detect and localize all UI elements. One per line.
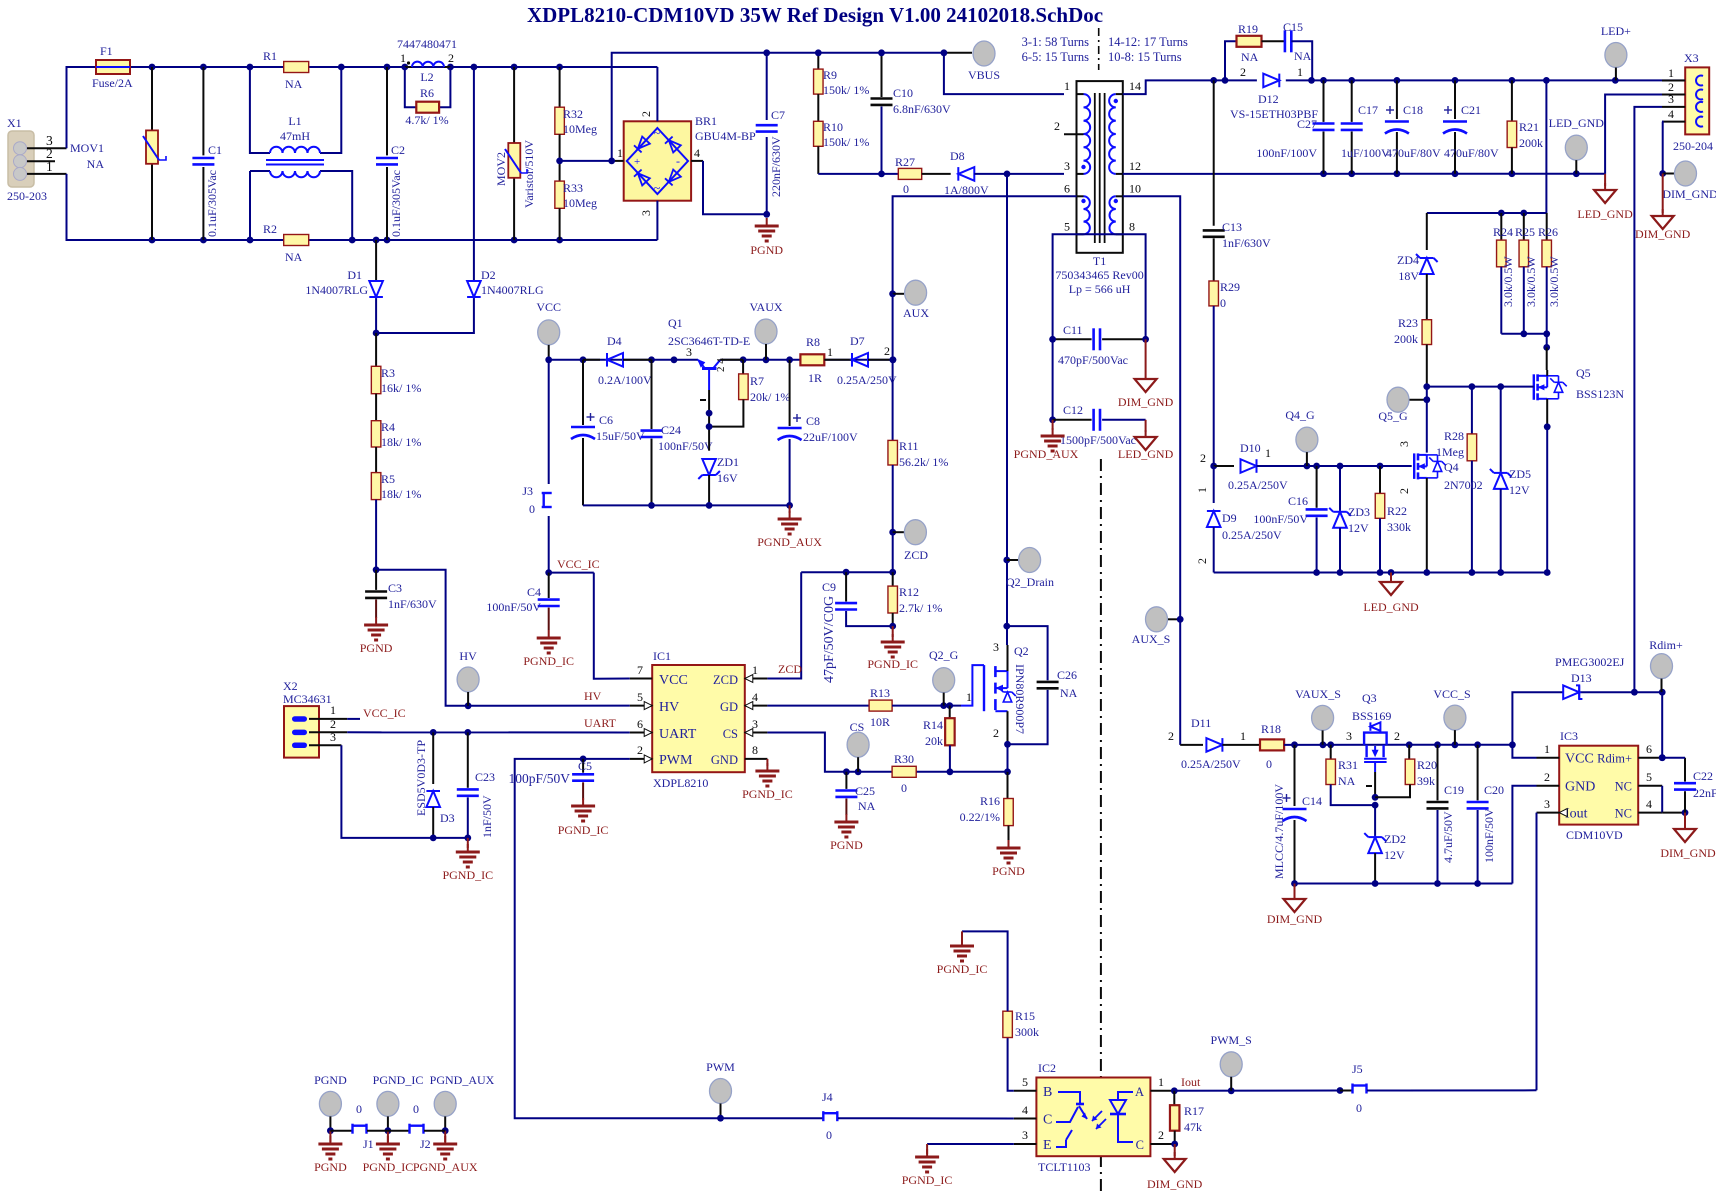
zener ZD3 — [1329, 466, 1370, 573]
ground PGND_IC at R15 — [937, 931, 988, 976]
transistor Q2 IPN80R900P7 — [961, 640, 1029, 772]
svg-text:C4: C4 — [527, 585, 541, 599]
svg-text:2: 2 — [1200, 451, 1206, 465]
svg-text:VCC_IC: VCC_IC — [363, 706, 406, 720]
svg-text:0: 0 — [1356, 1101, 1362, 1115]
svg-text:R29: R29 — [1220, 280, 1240, 294]
port PGND — [314, 1073, 347, 1134]
resistor R17 — [1170, 1091, 1204, 1148]
diode D2 — [373, 67, 544, 336]
resistor R31 — [1326, 745, 1375, 805]
svg-text:14-12: 17 Turns: 14-12: 17 Turns — [1108, 35, 1188, 49]
svg-text:~: ~ — [654, 181, 661, 195]
port LED+ — [1601, 24, 1631, 80]
svg-text:VCC_IC: VCC_IC — [557, 557, 600, 571]
svg-text:6: 6 — [1064, 182, 1070, 196]
svg-text:PGND_IC: PGND_IC — [523, 654, 574, 668]
resistor R3 chain top — [371, 333, 421, 395]
svg-text:470uF/80V: 470uF/80V — [1444, 146, 1499, 160]
wire GD net — [767, 705, 869, 707]
wire IC3 GND — [1512, 786, 1536, 884]
wire R27 rail — [818, 173, 898, 175]
svg-text:0.1uF/305Vac: 0.1uF/305Vac — [205, 170, 219, 237]
wire C13 R29 column — [1213, 80, 1215, 225]
svg-text:R4: R4 — [381, 420, 395, 434]
resistor R22 — [1375, 466, 1411, 573]
svg-text:0.22/1%: 0.22/1% — [960, 810, 1000, 824]
wire T1 pin6 — [893, 196, 1077, 293]
svg-text:Rdim+: Rdim+ — [1597, 752, 1632, 766]
svg-text:D12: D12 — [1258, 92, 1279, 106]
capacitor C21 polar — [1443, 80, 1499, 173]
wire VBUS riser — [612, 53, 944, 161]
svg-text:PGND: PGND — [830, 838, 863, 852]
capacitor C23 — [433, 732, 495, 841]
wire D8 to T1 pin3 — [974, 171, 1064, 178]
svg-text:Iout: Iout — [1181, 1075, 1201, 1089]
wire T1 pin12 rail — [1123, 170, 1605, 177]
svg-text:10Meg: 10Meg — [563, 122, 597, 136]
svg-text:10R: 10R — [870, 715, 890, 729]
svg-text:PGND: PGND — [314, 1073, 347, 1087]
diode D4 — [583, 334, 652, 387]
svg-text:18k/ 1%: 18k/ 1% — [381, 435, 421, 449]
jumper J3 — [522, 360, 551, 573]
svg-text:C10: C10 — [893, 86, 913, 100]
svg-text:PGND: PGND — [750, 243, 783, 257]
diode D11 — [1180, 716, 1260, 771]
resistor R33 — [555, 134, 597, 240]
svg-text:VAUX_S: VAUX_S — [1295, 687, 1341, 701]
ground PGND_IC at IC2 — [902, 1144, 953, 1187]
svg-text:20k: 20k — [925, 734, 943, 748]
ground DIM_GND at X3 — [1635, 174, 1691, 242]
ground PGND at C3 — [360, 617, 393, 655]
capacitor C12 — [1049, 339, 1145, 447]
svg-text:J4: J4 — [822, 1090, 833, 1104]
wire IC3 pin5-4 — [1662, 786, 1688, 816]
wire AC line top — [67, 67, 97, 148]
svg-text:NA: NA — [858, 799, 876, 813]
wire top rail — [130, 64, 657, 71]
wire X3 pin3 — [1634, 107, 1662, 692]
transistor Q1 — [668, 316, 750, 400]
svg-text:R24: R24 — [1493, 225, 1513, 239]
wire PGND_AUX rail — [583, 502, 793, 509]
svg-text:1: 1 — [1240, 729, 1246, 743]
wire Q1 base down — [706, 390, 713, 451]
svg-text:LED_GND: LED_GND — [1549, 116, 1605, 130]
svg-text:X2: X2 — [283, 679, 298, 693]
svg-text:6-5: 15 Turns: 6-5: 15 Turns — [1022, 50, 1090, 64]
svg-text:56.2k/ 1%: 56.2k/ 1% — [899, 455, 948, 469]
svg-text:5: 5 — [1064, 220, 1070, 234]
resistor R26 — [1538, 213, 1561, 337]
ground PGND_AUX — [757, 505, 822, 549]
wire Q5 gate rail — [1423, 383, 1533, 390]
svg-text:2: 2 — [1544, 770, 1550, 784]
svg-text:R20: R20 — [1417, 758, 1437, 772]
svg-text:J2: J2 — [420, 1137, 431, 1151]
wire AC neutral bottom — [67, 174, 284, 240]
wire ZCD to IC1 — [767, 572, 802, 678]
wire Iout line — [1171, 1075, 1344, 1094]
svg-text:16k/ 1%: 16k/ 1% — [381, 381, 421, 395]
zener ZD5 — [1490, 387, 1531, 573]
resistor R11 — [888, 439, 948, 572]
capacitor C19 — [1427, 745, 1465, 884]
wire IC3 VCC — [1512, 745, 1536, 758]
ground LED_GND at rail2 — [1363, 573, 1419, 615]
svg-text:100pF/50V: 100pF/50V — [508, 771, 570, 786]
svg-text:2: 2 — [637, 743, 643, 757]
svg-text:1uF/100V: 1uF/100V — [1341, 146, 1390, 160]
wire bottom rail — [309, 239, 658, 241]
svg-text:1Meg: 1Meg — [1436, 445, 1464, 459]
svg-text:D3: D3 — [440, 811, 455, 825]
svg-text:J1: J1 — [363, 1137, 374, 1151]
capacitor C6 polar — [571, 360, 645, 506]
svg-text:C15: C15 — [1283, 20, 1303, 34]
svg-text:47k: 47k — [1184, 1120, 1202, 1134]
svg-text:1A/800V: 1A/800V — [944, 183, 989, 197]
wire BR1 pin3 — [656, 201, 658, 240]
svg-text:1nF/50V: 1nF/50V — [480, 795, 494, 838]
svg-text:IC1: IC1 — [653, 649, 671, 663]
capacitor C22 — [1659, 754, 1716, 812]
port Q2_Drain — [1006, 548, 1054, 590]
varistor MOV1 — [70, 67, 166, 240]
svg-text:Q4_G: Q4_G — [1285, 408, 1315, 422]
svg-text:3: 3 — [1346, 729, 1352, 743]
resistor R24 — [1493, 213, 1515, 334]
svg-text:2: 2 — [639, 111, 653, 117]
capacitor C20 — [1467, 745, 1504, 884]
svg-text:PGND_IC: PGND_IC — [867, 657, 918, 671]
svg-text:3: 3 — [993, 640, 999, 654]
svg-text:NA: NA — [285, 77, 303, 91]
svg-text:R22: R22 — [1387, 504, 1407, 518]
svg-text:MOV2: MOV2 — [494, 152, 508, 186]
svg-text:PGND_IC: PGND_IC — [902, 1173, 953, 1187]
IC IC3 CDM10VD — [1537, 729, 1663, 842]
svg-text:IC3: IC3 — [1560, 729, 1578, 743]
svg-text:CS: CS — [850, 720, 865, 734]
svg-text:HV: HV — [659, 700, 679, 715]
svg-text:F1: F1 — [100, 44, 113, 58]
svg-text:PGND_IC: PGND_IC — [742, 787, 793, 801]
connector X2 — [283, 679, 347, 758]
svg-text:330k: 330k — [1387, 520, 1411, 534]
svg-text:1: 1 — [46, 159, 53, 174]
svg-text:DIM_GND: DIM_GND — [1662, 187, 1716, 201]
wire LED_GND rail — [1214, 569, 1551, 576]
svg-text:20k/ 1%: 20k/ 1% — [750, 390, 790, 404]
port PWM_S — [1211, 1033, 1252, 1091]
svg-text:ZCD: ZCD — [778, 662, 802, 676]
capacitor C4 — [486, 573, 559, 630]
svg-text:C17: C17 — [1358, 103, 1378, 117]
svg-text:PGND_AUX: PGND_AUX — [430, 1073, 495, 1087]
ground LED_GND at C12 — [1118, 420, 1174, 461]
svg-text:4: 4 — [694, 146, 700, 160]
svg-text:C27: C27 — [1297, 117, 1317, 131]
svg-text:R18: R18 — [1261, 722, 1281, 736]
svg-text:MC34631: MC34631 — [283, 692, 332, 706]
svg-text:3: 3 — [1668, 92, 1674, 106]
resistor R13 — [869, 686, 892, 729]
jumper J2 — [388, 1102, 445, 1151]
resistor R23 — [1394, 316, 1432, 387]
svg-text:3: 3 — [1544, 797, 1550, 811]
svg-text:3.0k/0.5W: 3.0k/0.5W — [1524, 256, 1538, 307]
wire GD to gate — [892, 690, 972, 709]
svg-text:LED_GND: LED_GND — [1118, 447, 1174, 461]
svg-text:LED_GND: LED_GND — [1363, 600, 1419, 614]
diode D12 — [1230, 65, 1318, 121]
junctions bottom rail — [149, 237, 563, 244]
svg-text:ZCD: ZCD — [904, 548, 928, 562]
resistor R4 — [371, 394, 421, 449]
svg-text:3: 3 — [330, 730, 336, 744]
svg-text:C6: C6 — [599, 413, 613, 427]
svg-text:C18: C18 — [1403, 103, 1423, 117]
svg-text:BSS123N: BSS123N — [1576, 387, 1624, 401]
svg-text:IPN80R900P7: IPN80R900P7 — [1013, 664, 1027, 734]
resistor R2 — [263, 222, 309, 264]
svg-text:C21: C21 — [1461, 103, 1481, 117]
svg-text:0: 0 — [901, 781, 907, 795]
resistor R1 — [263, 49, 309, 91]
capacitor C17 — [1341, 80, 1390, 173]
svg-text:NC: NC — [1615, 780, 1632, 794]
svg-text:1: 1 — [966, 690, 972, 704]
svg-text:L2: L2 — [420, 70, 433, 84]
svg-text:3: 3 — [1064, 159, 1070, 173]
svg-text:7: 7 — [637, 663, 643, 677]
ground PGND at C25 — [830, 814, 863, 852]
connector X1 — [7, 116, 67, 203]
wire HV net — [376, 570, 630, 709]
resistor R6 — [405, 67, 451, 127]
resistor R27 — [895, 155, 922, 196]
svg-text:MLCC/4.7uF/100V: MLCC/4.7uF/100V — [1272, 784, 1286, 879]
port Q5_G — [1378, 387, 1430, 453]
svg-text:~: ~ — [654, 126, 661, 140]
svg-text:AUX: AUX — [903, 306, 929, 320]
wire UART net — [347, 716, 630, 736]
svg-text:1nF/630V: 1nF/630V — [1222, 236, 1271, 250]
svg-text:IC2: IC2 — [1038, 1061, 1056, 1075]
svg-text:1R: 1R — [808, 371, 822, 385]
svg-text:ZD1: ZD1 — [717, 455, 739, 469]
svg-text:C24: C24 — [661, 423, 681, 437]
capacitor C16 — [1253, 466, 1327, 573]
ground PGND_AUX bottom — [413, 1131, 478, 1174]
svg-text:PWM: PWM — [706, 1060, 735, 1074]
wire ZD4 rail — [1427, 80, 1547, 216]
wire CS net — [767, 733, 1010, 776]
capacitor C3 — [365, 570, 437, 618]
resistor R30 — [892, 752, 916, 795]
svg-text:BR1: BR1 — [695, 114, 717, 128]
svg-text:R23: R23 — [1398, 316, 1418, 330]
ground PGND_IC at IC1 pin8 — [742, 759, 793, 801]
wire secondary rail — [1210, 77, 1685, 84]
svg-text:R1: R1 — [263, 49, 277, 63]
ground DIM_GND at C11 — [1118, 339, 1174, 409]
jumper J1 — [330, 1102, 388, 1151]
svg-text:PGND_AUX: PGND_AUX — [413, 1160, 478, 1174]
port LED_GND — [1549, 116, 1605, 174]
svg-text:1: 1 — [617, 146, 623, 160]
svg-text:R19: R19 — [1238, 22, 1258, 36]
capacitor C8 polar — [778, 360, 858, 506]
wire X2 pin1 VCC_IC — [347, 706, 405, 720]
svg-text:22uF/100V: 22uF/100V — [803, 430, 858, 444]
svg-text:D4: D4 — [607, 334, 622, 348]
svg-text:E: E — [1043, 1138, 1052, 1153]
svg-text:0: 0 — [1220, 296, 1226, 310]
svg-text:GBU4M-BP: GBU4M-BP — [695, 129, 756, 143]
transistor Q4 2N7002 — [1397, 441, 1483, 573]
svg-text:5: 5 — [1022, 1075, 1028, 1089]
svg-text:12V: 12V — [1348, 521, 1369, 535]
svg-text:Lp = 566 uH: Lp = 566 uH — [1069, 282, 1131, 296]
svg-text:NC: NC — [1615, 807, 1632, 821]
svg-text:100nF/50V: 100nF/50V — [486, 600, 541, 614]
svg-text:1: 1 — [1195, 487, 1209, 493]
svg-text:R8: R8 — [806, 335, 820, 349]
svg-text:VCC: VCC — [659, 673, 688, 688]
choke L1 — [250, 67, 352, 240]
svg-text:+: + — [634, 156, 640, 168]
transformer T1 — [1054, 79, 1144, 296]
IC IC2 TCLT1103 — [1014, 1061, 1175, 1174]
svg-text:2N7002: 2N7002 — [1444, 478, 1483, 492]
svg-text:Q2: Q2 — [1014, 644, 1029, 658]
svg-text:D7: D7 — [850, 334, 865, 348]
wire VCC_IC net — [545, 557, 629, 679]
capacitor C27 — [1256, 80, 1334, 173]
resistor R29 — [1209, 280, 1240, 466]
svg-text:R33: R33 — [563, 181, 583, 195]
wire T1 pin14 to rail — [1123, 80, 1214, 94]
svg-text:BSS169: BSS169 — [1352, 709, 1391, 723]
resistor R19 — [1225, 22, 1262, 80]
svg-text:C3: C3 — [388, 581, 402, 595]
wire DIM_GND rail — [1291, 880, 1512, 887]
svg-text:2: 2 — [1054, 119, 1060, 133]
svg-text:CDM10VD: CDM10VD — [1566, 828, 1623, 842]
port VCC — [536, 300, 561, 363]
svg-text:D2: D2 — [481, 268, 496, 282]
svg-text:PGND_IC: PGND_IC — [373, 1073, 424, 1087]
diode D1 — [305, 240, 383, 333]
svg-text:C2: C2 — [391, 143, 405, 157]
svg-text:250-204: 250-204 — [1673, 139, 1713, 153]
svg-text:47mH: 47mH — [280, 129, 310, 143]
svg-text:D13: D13 — [1571, 671, 1592, 685]
wire X2 pin3 — [341, 745, 433, 838]
svg-text:VCC: VCC — [1565, 752, 1594, 767]
svg-text:3-1: 58 Turns: 3-1: 58 Turns — [1022, 35, 1090, 49]
svg-text:470pF/500Vac: 470pF/500Vac — [1058, 353, 1128, 367]
wire D13 line — [1512, 689, 1665, 745]
port Q2_G — [929, 648, 959, 706]
svg-text:R28: R28 — [1444, 429, 1464, 443]
svg-text:Q2_G: Q2_G — [929, 648, 959, 662]
svg-text:R5: R5 — [381, 472, 395, 486]
resistor R7 — [709, 360, 790, 427]
wire D9 column — [1195, 466, 1214, 503]
fuse F1 — [92, 44, 133, 90]
wire IC2 pin3 E — [927, 1143, 1014, 1145]
svg-text:C1: C1 — [208, 143, 222, 157]
capacitor C25 — [835, 772, 875, 815]
svg-text:Q1: Q1 — [668, 316, 683, 330]
svg-text:PGND: PGND — [992, 864, 1025, 878]
capacitor C2 — [376, 67, 405, 240]
svg-text:Q4: Q4 — [1444, 460, 1459, 474]
svg-text:R6: R6 — [420, 86, 434, 100]
svg-text:PMEG3002EJ: PMEG3002EJ — [1555, 655, 1625, 669]
port VAUX_S — [1295, 687, 1341, 745]
svg-text:Q5: Q5 — [1576, 366, 1591, 380]
svg-text:XDPL8210: XDPL8210 — [653, 776, 708, 790]
svg-text:3: 3 — [639, 210, 653, 216]
svg-text:2: 2 — [1168, 729, 1174, 743]
svg-text:C20: C20 — [1484, 783, 1504, 797]
wire ZCD node — [801, 569, 896, 576]
svg-text:DIM_GND: DIM_GND — [1660, 846, 1716, 860]
svg-text:LED_GND: LED_GND — [1577, 207, 1633, 221]
svg-text:A: A — [1135, 1085, 1144, 1099]
wire Q2 drain net — [1003, 174, 1010, 645]
svg-text:R10: R10 — [823, 120, 843, 134]
svg-text:12V: 12V — [1509, 483, 1530, 497]
svg-text:2: 2 — [1394, 729, 1400, 743]
capacitor C7 — [756, 49, 785, 217]
svg-text:470uF/80V: 470uF/80V — [1386, 146, 1441, 160]
jumper J5 — [1340, 1062, 1537, 1115]
svg-text:VBUS: VBUS — [968, 68, 1000, 82]
ground PGND_IC at C5 — [558, 798, 609, 837]
wire R24-26 join — [1501, 334, 1550, 370]
svg-text:0.25A/250V: 0.25A/250V — [1181, 757, 1241, 771]
svg-text:R9: R9 — [823, 68, 837, 82]
svg-text:NA: NA — [1060, 686, 1078, 700]
wire VAUX rail right — [720, 356, 893, 363]
wire R15 to gnd — [962, 931, 1008, 1011]
capacitor C13 — [1203, 220, 1271, 281]
svg-text:R25: R25 — [1515, 225, 1535, 239]
svg-text:TCLT1103: TCLT1103 — [1038, 1160, 1090, 1174]
jumper J4 — [709, 1090, 1014, 1142]
svg-text:100nF/100V: 100nF/100V — [1256, 146, 1317, 160]
inductor L2 — [397, 37, 457, 84]
svg-text:R15: R15 — [1015, 1009, 1035, 1023]
svg-text:PGND_AUX: PGND_AUX — [1014, 447, 1079, 461]
diode D10 — [1214, 441, 1412, 492]
svg-text:ZD5: ZD5 — [1509, 467, 1531, 481]
svg-text:B: B — [1043, 1085, 1052, 1100]
svg-text:J3: J3 — [522, 484, 533, 498]
connector X3 — [1662, 51, 1713, 153]
wire VAUX rail left — [549, 356, 698, 363]
svg-text:D8: D8 — [950, 149, 965, 163]
zener ZD1 — [698, 455, 739, 505]
